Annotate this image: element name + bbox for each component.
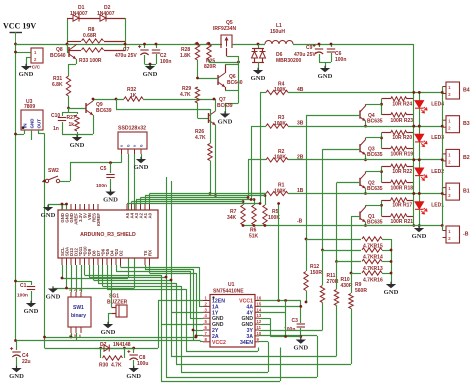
svg-text:1k: 1k	[69, 122, 75, 128]
wire jack pin1	[16, 52, 32, 54]
wire Q6 emitter chain	[238, 62, 240, 90]
wire riser R2	[248, 160, 250, 198]
node rail-top	[14, 43, 17, 46]
ground D6	[253, 70, 263, 74]
resistor R22 10R	[382, 166, 391, 168]
svg-text:820R: 820R	[204, 64, 216, 70]
LED LED2	[419, 160, 421, 168]
wire Q6 base	[198, 78, 219, 80]
svg-text:GND: GND	[19, 71, 34, 78]
svg-text:binary: binary	[71, 313, 86, 319]
LED LED4	[419, 92, 421, 100]
ground C9 C6	[319, 62, 331, 64]
wire unit left node	[381, 166, 383, 182]
svg-text:100R R23: 100R R23	[391, 118, 414, 124]
wire net 3B	[288, 126, 442, 128]
svg-text:IOREF: IOREF	[96, 213, 101, 227]
ground Q6 Q7	[220, 114, 230, 118]
connector X1 jack	[31, 48, 43, 63]
wire SSD pin3 SDA	[134, 154, 136, 288]
wire Q9 collector	[93, 99, 95, 101]
svg-text:SW1: SW1	[73, 305, 84, 311]
wire Q5 gate	[226, 48, 228, 56]
svg-text:100n: 100n	[160, 59, 171, 65]
svg-text:12: 12	[257, 319, 262, 324]
svg-text:GND: GND	[24, 308, 39, 315]
wire gnd link vertical	[285, 301, 287, 337]
wire unit left node	[381, 133, 383, 149]
wire 1Y left	[171, 312, 203, 314]
svg-text:150R: 150R	[310, 270, 322, 276]
resistor R14 4.7K	[323, 250, 362, 252]
wire riser base Q4	[306, 115, 308, 239]
wire R31 to Q9 base	[68, 96, 70, 108]
svg-text:R30: R30	[99, 363, 108, 369]
connector B2	[446, 149, 460, 166]
svg-text:MBR30200: MBR30200	[276, 58, 302, 64]
wire -B rail	[243, 225, 442, 227]
wire net 4B	[288, 92, 442, 94]
svg-text:1N4148: 1N4148	[113, 342, 131, 348]
svg-text:GND: GND	[293, 345, 308, 352]
svg-text:B3: B3	[463, 121, 470, 127]
dip switch SW1 binary	[68, 297, 91, 327]
svg-text:14: 14	[257, 307, 262, 312]
svg-text:SSD128x32: SSD128x32	[118, 126, 146, 132]
ground arduino left	[43, 207, 53, 211]
resistor R18 100R	[382, 182, 391, 184]
wire buzzer drive	[111, 265, 113, 308]
resistor R19 100R	[382, 148, 391, 150]
svg-text:10R R22: 10R R22	[392, 169, 412, 175]
wire GND5 left	[161, 324, 203, 326]
wire main bottom rail VCC2	[16, 340, 201, 342]
svg-text:16: 16	[257, 296, 262, 301]
svg-text:B1: B1	[463, 189, 470, 195]
svg-text:IRF9Z34N: IRF9Z34N	[213, 26, 236, 32]
wire B1 pins	[442, 188, 444, 194]
svg-text:BC639: BC639	[96, 108, 112, 114]
svg-text:3B: 3B	[297, 121, 304, 127]
wire B4 pins	[442, 87, 444, 93]
resistor R16 4.7K	[351, 273, 361, 275]
resistor R17 10R	[382, 200, 391, 202]
svg-text:GND: GND	[41, 212, 56, 219]
wire 4A	[259, 306, 301, 308]
svg-text:1.8K: 1.8K	[180, 53, 191, 59]
connector B1	[446, 183, 460, 200]
svg-text:BC640: BC640	[227, 80, 243, 86]
svg-text:U1: U1	[228, 282, 235, 288]
wire bus A3	[136, 199, 254, 201]
svg-text:GND: GND	[218, 119, 233, 126]
svg-text:10R R24: 10R R24	[392, 101, 412, 107]
svg-text:GND: GND	[9, 373, 24, 380]
wire sda	[66, 265, 68, 288]
wire riser base Q1	[351, 217, 353, 274]
connector B3	[446, 116, 460, 133]
ground C1	[26, 303, 36, 307]
wire riser R4	[260, 92, 262, 203]
wire left rail	[15, 44, 17, 342]
svg-text:7809: 7809	[24, 104, 35, 110]
wire 3Y to R11	[259, 330, 323, 332]
wire bottom nest y364	[176, 364, 351, 366]
svg-text:6.8K: 6.8K	[52, 82, 63, 88]
svg-text:100R R21: 100R R21	[391, 219, 414, 225]
svg-text:VCC2: VCC2	[212, 340, 226, 346]
svg-text:ARDUINO_R3_SHIELD: ARDUINO_R3_SHIELD	[80, 232, 136, 238]
wire unit left node	[381, 99, 383, 115]
wire bottom nest y356	[171, 356, 337, 358]
svg-text:22u: 22u	[22, 359, 31, 365]
svg-text:560R: 560R	[355, 288, 367, 294]
wire riser base Q3	[322, 149, 324, 250]
svg-text:100R R18: 100R R18	[391, 185, 414, 191]
ground -B rail	[419, 226, 421, 229]
wire VCC1 net	[259, 300, 301, 302]
wire bus A2	[141, 197, 249, 199]
wire unit right node	[413, 92, 415, 126]
svg-text:2: 2	[74, 288, 76, 292]
svg-text:100u: 100u	[137, 361, 148, 367]
svg-text:B2: B2	[463, 155, 470, 161]
wire SW2 join	[42, 181, 45, 183]
wire unit left node	[381, 200, 383, 216]
wire U3 OUT down	[38, 130, 40, 134]
svg-text:C3: C3	[292, 318, 299, 324]
wire TX to 2Y	[145, 265, 147, 269]
wire arduino gnd top	[48, 204, 67, 206]
svg-text:BC635: BC635	[367, 118, 383, 124]
wire bottom nest y372 34EN	[181, 372, 268, 374]
wire sw1 bottom2	[76, 333, 78, 341]
resistor R21 100R	[382, 216, 391, 218]
wire unit right node	[413, 160, 415, 194]
wire B3 pins	[442, 120, 444, 126]
svg-text:GND: GND	[126, 373, 141, 380]
svg-text:D2: D2	[118, 250, 123, 256]
svg-text:10R R17: 10R R17	[392, 203, 412, 209]
LED LED3	[419, 126, 421, 134]
svg-text:100n: 100n	[17, 293, 28, 299]
wire bus A1	[145, 195, 265, 197]
wire unit right node	[413, 126, 415, 160]
svg-text:GND: GND	[251, 75, 266, 82]
svg-text:4.7K: 4.7K	[195, 135, 206, 141]
resistor R24 10R	[382, 98, 391, 100]
wire top rail	[16, 44, 223, 46]
svg-text:4.7KR16: 4.7KR16	[363, 278, 383, 284]
svg-text:BC635: BC635	[367, 152, 383, 158]
wire D6 riser	[102, 265, 104, 286]
ground C4	[11, 368, 21, 372]
svg-text:A0: A0	[147, 212, 152, 218]
wire D9 riser	[89, 265, 91, 277]
ground buzzer	[108, 313, 112, 315]
ground jack	[21, 66, 31, 70]
svg-text:-B: -B	[463, 232, 469, 238]
wire net 2B	[288, 159, 442, 161]
svg-text:GND: GND	[30, 118, 35, 129]
svg-text:OUT: OUT	[37, 119, 42, 129]
wire Q7 collector	[215, 99, 217, 111]
wire bus A5	[127, 203, 260, 205]
wire 12EN left	[158, 300, 203, 302]
wire C10 R27 bottom	[62, 134, 93, 136]
svg-text:BC639: BC639	[217, 103, 233, 109]
wire rail L1 right	[293, 44, 413, 46]
wire y348 bottom	[45, 348, 159, 350]
svg-text:C1: C1	[20, 283, 27, 289]
svg-text:GND: GND	[46, 294, 61, 301]
svg-text:SW2: SW2	[48, 168, 59, 174]
wire jack pin2	[26, 57, 31, 59]
svg-text:100R R19: 100R R19	[391, 152, 414, 158]
wire scl	[62, 265, 64, 278]
svg-text:-B: -B	[297, 219, 303, 225]
svg-text:GND: GND	[70, 142, 85, 149]
wire SSD pin1	[121, 154, 123, 163]
wire 4.7K common	[391, 239, 393, 284]
node R32	[115, 98, 118, 101]
svg-text:C9: C9	[306, 45, 313, 51]
svg-text:11: 11	[257, 325, 262, 330]
connector B4	[446, 82, 460, 99]
wire R29 to Q7 base	[197, 103, 199, 118]
svg-text:GND: GND	[103, 197, 118, 204]
resistor R23 100R	[382, 114, 391, 116]
svg-text:10: 10	[257, 331, 262, 336]
svg-text:B4: B4	[463, 88, 470, 94]
module ARDUINO_R3_SHIELD	[58, 210, 158, 258]
svg-text:GND: GND	[134, 164, 149, 171]
ground C8	[129, 368, 139, 372]
svg-text:34EN: 34EN	[240, 340, 253, 346]
svg-text:BC635: BC635	[367, 220, 383, 226]
svg-text:470u 25V: 470u 25V	[115, 53, 137, 59]
wire D7 riser	[98, 265, 100, 283]
wire bottom nest y351	[186, 351, 258, 353]
svg-text:1n: 1n	[53, 126, 59, 132]
svg-text:GND: GND	[412, 233, 427, 240]
svg-text:BC635: BC635	[367, 186, 383, 192]
wire bus A0	[150, 193, 267, 195]
wire gnd link horizontal	[270, 336, 301, 338]
ground SSD	[141, 154, 143, 159]
wire SW1 bottom	[71, 333, 73, 337]
svg-text:GND: GND	[318, 73, 333, 80]
svg-text:GND: GND	[384, 289, 399, 296]
svg-text:470u 25V: 470u 25V	[294, 52, 316, 58]
wire U3 GND stub	[31, 130, 33, 140]
wire net 1B	[288, 193, 442, 195]
svg-text:34K: 34K	[227, 215, 237, 221]
svg-text:C10: C10	[51, 113, 60, 119]
resistor R15 4.7K	[306, 239, 361, 241]
wire D3 jog	[116, 265, 118, 271]
wire vcc riser	[278, 204, 280, 301]
wire Q7 emitter	[215, 125, 217, 196]
ground C7 C2	[145, 64, 157, 66]
wire bus A4	[132, 201, 244, 203]
svg-text:13: 13	[257, 313, 262, 318]
LED LED1	[419, 194, 421, 202]
svg-text:SN754410NE: SN754410NE	[213, 289, 244, 295]
svg-text:100n: 100n	[96, 183, 107, 189]
svg-text:+C/C: +C/C	[29, 65, 41, 71]
wire unit right node	[413, 194, 415, 226]
ground C3	[296, 340, 306, 344]
wire R25 to gate node	[209, 62, 239, 64]
svg-text:10R R20: 10R R20	[392, 135, 412, 141]
svg-text:4.7K: 4.7K	[111, 363, 122, 369]
wire bottom nest y377 3A	[166, 377, 317, 379]
ground C5	[105, 192, 115, 196]
svg-text:GND: GND	[101, 329, 116, 336]
svg-text:4.7K: 4.7K	[180, 92, 191, 98]
wire bottom nest y381	[161, 381, 280, 383]
wire RX to 2A	[149, 265, 151, 273]
svg-text:150uH: 150uH	[270, 29, 285, 35]
node L	[67, 18, 69, 50]
ground Q9	[77, 134, 79, 137]
resistor R13 4.7K	[337, 261, 362, 263]
ground sda	[48, 289, 58, 293]
wire gnd rows tie	[259, 318, 270, 320]
wire D5 riser	[107, 265, 109, 289]
wire U3 IN	[24, 130, 26, 134]
svg-text:R33 100R: R33 100R	[79, 58, 102, 64]
node R	[125, 18, 127, 50]
wire Q5 drain rail	[232, 44, 265, 46]
svg-text:15: 15	[257, 301, 262, 306]
svg-text:51K: 51K	[249, 234, 259, 240]
wire D2 to 1A	[120, 265, 122, 267]
svg-text:C5: C5	[100, 166, 107, 172]
svg-text:GND: GND	[143, 71, 158, 78]
svg-text:RX: RX	[147, 250, 152, 256]
wire 4Y	[259, 312, 286, 314]
connector -B	[446, 226, 460, 243]
wire to R26	[116, 99, 118, 109]
wire SSD pin2 SCL	[128, 154, 130, 278]
svg-text:BC640: BC640	[50, 53, 66, 59]
wire rail corner down	[413, 44, 415, 92]
wire riser base Q2	[336, 183, 338, 262]
wire Q9 emitter	[93, 115, 95, 134]
svg-text:0.68R: 0.68R	[83, 33, 97, 39]
resistor R20 10R	[382, 132, 391, 134]
svg-text:1: 1	[69, 288, 71, 292]
svg-text:VCC 19V: VCC 19V	[3, 22, 36, 31]
wire A risers	[149, 194, 151, 205]
svg-text:100n: 100n	[335, 57, 346, 63]
wire SW1 top pins	[71, 265, 73, 292]
ground 4.7K stack	[386, 284, 396, 288]
wire D8 riser	[93, 265, 95, 280]
wire D10 riser	[84, 265, 86, 275]
wire B2 pins	[442, 154, 444, 160]
wire riser R3	[251, 126, 253, 199]
svg-text:3: 3	[79, 288, 81, 292]
